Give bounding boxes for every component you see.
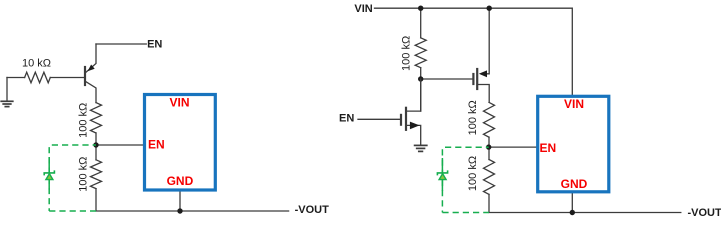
svg-text:100 kΩ: 100 kΩ <box>401 36 413 71</box>
resistor R2 100k <box>91 103 102 133</box>
transistor Q1 PNP <box>85 44 96 103</box>
resistor R3 100k <box>91 160 102 189</box>
wire GND pin to rail <box>571 193 573 212</box>
wire VIN rail (right circuit) <box>375 8 573 95</box>
op-amp U2 regulator box <box>538 96 609 192</box>
wire R1 to Q1 base <box>50 77 84 79</box>
highlight dashed box (right) <box>442 147 489 212</box>
ground (left circuit) <box>1 78 13 107</box>
svg-text:GND: GND <box>167 174 194 188</box>
svg-text:100 kΩ: 100 kΩ <box>467 100 479 135</box>
svg-text:10 kΩ: 10 kΩ <box>22 57 51 69</box>
svg-text:100 kΩ: 100 kΩ <box>77 157 89 192</box>
node E <box>570 210 575 215</box>
wire R3 to -VOUT rail <box>96 189 289 211</box>
resistor R6 100k <box>484 160 495 195</box>
wire node C to Q3 gate <box>421 78 474 80</box>
node D <box>486 144 491 149</box>
svg-text:-VOUT: -VOUT <box>295 204 330 216</box>
wire node D to R6 <box>488 147 490 159</box>
ground (right circuit) <box>415 145 427 151</box>
wire R2 to node A <box>95 133 97 145</box>
svg-text:100 kΩ: 100 kΩ <box>467 156 479 191</box>
highlight dashed box (left) <box>49 145 96 211</box>
transistor Q3 PMOS <box>473 8 489 102</box>
resistor R1 10k <box>25 72 51 83</box>
node A <box>93 142 98 147</box>
wire node D to EN pin <box>489 146 537 148</box>
svg-text:VIN: VIN <box>564 97 584 111</box>
svg-text:GND: GND <box>561 177 588 191</box>
resistor R5 100k <box>484 102 495 137</box>
wire R5 to node D <box>488 137 490 147</box>
svg-text:EN: EN <box>339 113 354 125</box>
op-amp U1 regulator box <box>145 95 216 191</box>
wire node A to EN pin <box>96 144 143 146</box>
wire Q1 emitter to EN <box>96 43 146 45</box>
svg-text:-VOUT: -VOUT <box>688 207 721 219</box>
zener diode D1 <box>44 157 54 190</box>
wire R4 to node C <box>420 68 422 79</box>
node rail junction 2 <box>487 6 492 11</box>
svg-text:VIN: VIN <box>169 96 189 110</box>
transistor Q2 NMOS <box>358 79 421 145</box>
wire rail to R4 <box>420 8 422 38</box>
wire node C to Q2 drain <box>420 79 422 111</box>
zener diode D2 <box>437 158 447 191</box>
node rail junction 1 <box>418 6 423 11</box>
node C <box>418 76 423 81</box>
wire GND pin to rail <box>179 190 181 211</box>
svg-text:EN: EN <box>540 141 557 155</box>
wire ground to R1 <box>7 77 25 79</box>
svg-text:EN: EN <box>148 138 165 152</box>
svg-text:EN: EN <box>147 39 162 51</box>
wire node A to R3 <box>95 145 97 160</box>
wire R6 to -VOUT rail <box>489 194 681 212</box>
node B <box>177 208 182 213</box>
resistor R4 100k <box>415 38 426 68</box>
svg-text:VIN: VIN <box>354 3 372 15</box>
svg-text:100 kΩ: 100 kΩ <box>77 103 89 138</box>
